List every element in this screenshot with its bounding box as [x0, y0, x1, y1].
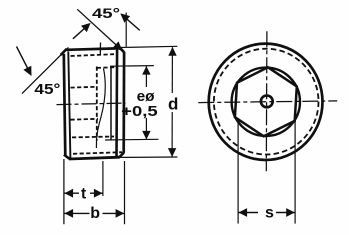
s arrowhead right [286, 208, 295, 217]
thread root top dashed [71, 54, 115, 56]
t arrowhead left [65, 189, 74, 198]
d label background [165, 93, 180, 112]
right face vertical [122, 52, 125, 153]
arrowhead to left diagonal [23, 66, 31, 76]
arrow to left diagonal [17, 47, 28, 69]
arrow to top diagonal [73, 27, 87, 39]
t label background [79, 186, 90, 201]
s extension line right [294, 118, 296, 224]
d arrowhead down [168, 148, 176, 157]
flange bottom-right chamfer [119, 153, 124, 158]
b label background [90, 206, 103, 222]
t extension line right [102, 161, 104, 196]
b arrowhead left [65, 209, 74, 218]
core hole circle e [232, 68, 300, 136]
break wavy line [96, 69, 105, 149]
s dimension line [239, 212, 295, 214]
chamfer 45 leader arrowhead [113, 41, 123, 50]
svg-text:d: d [168, 94, 178, 113]
svg-text:eø: eø [137, 89, 155, 105]
svg-text:s: s [265, 204, 274, 221]
left inner thread edge [68, 51, 70, 158]
svg-text:+0,5: +0,5 [121, 104, 158, 120]
socket bottom hidden dashed vertical [96, 67, 98, 141]
arrow to vertical extension [125, 17, 140, 30]
t dimension line [65, 192, 103, 194]
end view horizontal centerline [198, 101, 337, 103]
thread end tick [99, 43, 101, 56]
centerline axis left view [57, 103, 130, 105]
b dimension line [65, 212, 125, 214]
flange face vertical [115, 48, 118, 157]
socket bottom solid section line [105, 138, 159, 141]
interior dashed line upper [71, 86, 98, 89]
b arrowhead right [116, 209, 125, 218]
body bottom-left chamfer [64, 155, 69, 159]
interior dashed line lower [71, 118, 99, 121]
svg-text:45°: 45° [92, 6, 120, 21]
dashed thread circle [214, 49, 319, 155]
chamfer 45 diagonal left [22, 47, 68, 93]
t arrowhead right [94, 189, 103, 198]
chamfer 45 leader diagonal top [77, 9, 120, 48]
hex socket [235, 67, 297, 136]
thread root bottom dashed [73, 152, 122, 154]
d dimension line [171, 47, 173, 156]
chamfer vertical extension line [125, 13, 127, 47]
center pilot circle [261, 96, 273, 108]
socket hex corner edge [110, 68, 112, 140]
d bottom extension line [120, 156, 178, 158]
t extension line left [63, 159, 65, 224]
body top-left chamfer [61, 49, 67, 55]
socket top hidden dashed [97, 66, 118, 69]
e arrowhead down [142, 131, 150, 140]
s arrowhead left [239, 208, 248, 217]
d top extension line [120, 46, 178, 47]
s extension line left [237, 118, 239, 224]
body bottom edge [69, 157, 120, 159]
flange top edge [116, 46, 120, 49]
b extension line right [124, 161, 126, 224]
e dimension line [145, 66, 147, 139]
e arrowhead up [142, 66, 150, 75]
body left outer edge [64, 54, 66, 156]
e label background [126, 87, 162, 118]
s label background [258, 205, 276, 221]
svg-text:b: b [90, 205, 100, 222]
d arrowhead up [168, 47, 176, 56]
socket bottom hidden dashed [72, 136, 114, 139]
arrowhead to top diagonal [81, 23, 91, 32]
body top edge [66, 48, 117, 49]
socket top extension line [110, 65, 154, 68]
outer circle [209, 44, 323, 160]
svg-text:t: t [81, 185, 86, 202]
flange top-right chamfer [119, 48, 124, 53]
svg-text:45°: 45° [34, 82, 60, 98]
end view vertical centerline [265, 31, 268, 171]
arrowhead to vertical extension [120, 13, 130, 22]
